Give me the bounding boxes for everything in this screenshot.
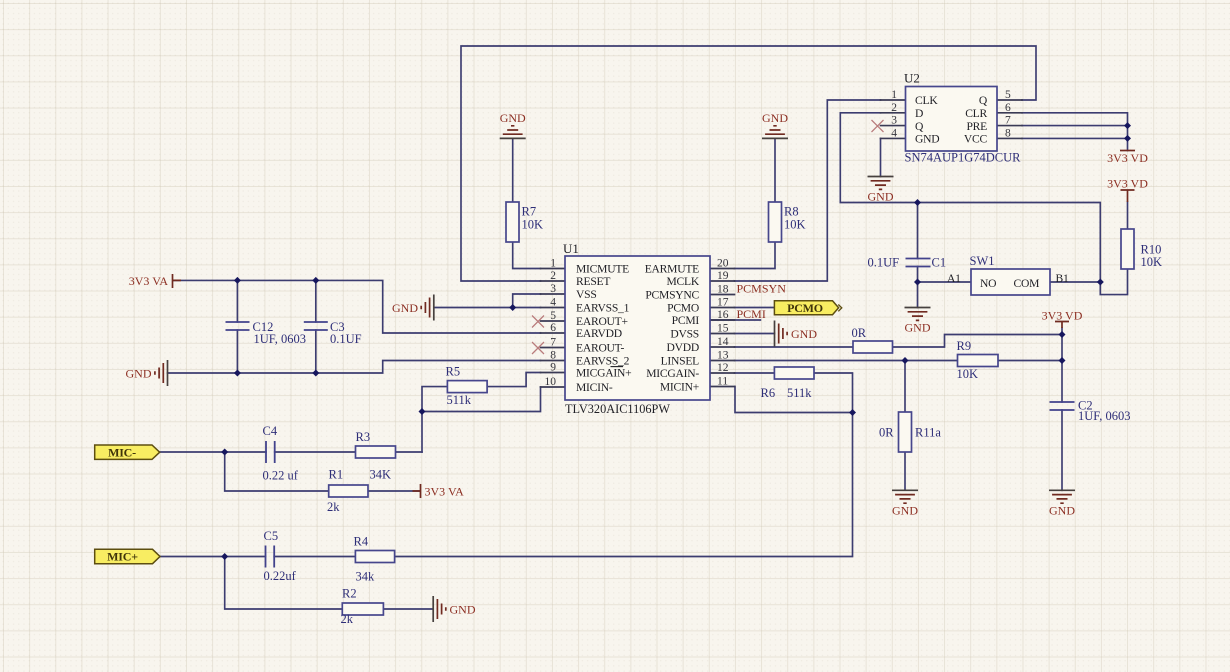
capacitor C12 1UF,0603 [226, 320, 306, 346]
svg-text:34k: 34k [356, 570, 376, 584]
wire U2 pin4 to ground [880, 138, 882, 176]
wire MICGAIN+ pin9 to R5 [487, 373, 540, 387]
resistor R4 34k [354, 535, 395, 584]
svg-text:R5: R5 [446, 365, 461, 379]
capacitor C2 1UF,0603 [1050, 399, 1131, 424]
wire R1 to 3V3VA [368, 490, 420, 492]
wire DVDD pin14 to 0R [735, 346, 854, 348]
svg-text:1UF, 0603: 1UF, 0603 [1078, 409, 1130, 423]
wire C1 bottom stem [917, 267, 919, 308]
svg-text:GND: GND [500, 111, 526, 125]
svg-text:17: 17 [717, 297, 729, 309]
ground above R7 [500, 111, 526, 139]
wire R4 to R6 net and MICIN+ [395, 373, 853, 557]
switch SW1 [947, 254, 1069, 295]
wire GND to EARVSS_1 pin4 [434, 307, 541, 309]
svg-text:10K: 10K [1141, 255, 1163, 269]
resistor R1 2k [327, 468, 368, 515]
wire R11a top stem [904, 361, 906, 413]
wire PCMO pin17 to port [735, 307, 775, 309]
no-connect X U1 pin5 [532, 316, 544, 328]
wire GND to R7 [512, 140, 514, 203]
wire R3 right [396, 451, 423, 453]
svg-text:B1: B1 [1056, 272, 1069, 285]
wire U2 pin7 PRE [1022, 125, 1128, 127]
svg-text:DVDD: DVDD [667, 341, 700, 354]
svg-text:GND: GND [915, 133, 939, 146]
wire LINSEL pin13 to R9 [735, 360, 958, 362]
svg-text:6: 6 [550, 322, 556, 334]
svg-text:VSS: VSS [576, 288, 597, 301]
svg-text:MICMUTE: MICMUTE [576, 263, 629, 276]
svg-text:3V3 VD: 3V3 VD [1107, 176, 1148, 190]
port MIC- [95, 445, 160, 459]
svg-text:3V3 VD: 3V3 VD [1042, 308, 1083, 322]
svg-text:3V3 VA: 3V3 VA [129, 274, 169, 288]
svg-text:0R: 0R [852, 326, 867, 340]
svg-text:GND: GND [126, 366, 152, 380]
svg-text:GND: GND [791, 327, 817, 341]
svg-text:14: 14 [717, 336, 729, 348]
svg-text:PRE: PRE [966, 120, 987, 133]
svg-text:MICIN+: MICIN+ [660, 381, 699, 394]
svg-text:7: 7 [550, 337, 556, 349]
wire branch to VSS pin3 [513, 294, 541, 308]
svg-text:Q: Q [979, 94, 988, 107]
wire C5 to R4 [274, 556, 355, 558]
capacitor C3 0.1UF [304, 320, 362, 346]
svg-text:GND: GND [868, 190, 894, 204]
wire C12 bottom stem [236, 330, 238, 373]
wire RESET to U2 Q loop [461, 46, 1036, 281]
resistor R5 511k [446, 365, 488, 408]
svg-text:MICGAIN+: MICGAIN+ [576, 367, 631, 380]
no-connect X U1 pin7 [532, 342, 544, 354]
svg-text:NO: NO [980, 277, 996, 290]
svg-text:PCMI: PCMI [672, 314, 700, 327]
svg-text:1: 1 [550, 258, 556, 270]
resistor R11a 0R [879, 412, 941, 452]
svg-text:15: 15 [717, 323, 729, 335]
svg-text:R8: R8 [784, 205, 799, 219]
svg-text:C4: C4 [263, 424, 278, 438]
svg-text:R2: R2 [342, 587, 357, 601]
svg-text:EAROUT-: EAROUT- [576, 342, 624, 355]
wire C12 top stem [236, 280, 238, 322]
svg-text:0.1UF: 0.1UF [868, 256, 900, 270]
wire R5 left to R3 node [422, 387, 447, 452]
svg-text:8: 8 [1005, 127, 1011, 139]
capacitor C1 0.1UF [868, 256, 947, 270]
svg-text:4: 4 [891, 127, 897, 139]
ground R2 [433, 596, 476, 622]
svg-text:10: 10 [545, 376, 557, 388]
svg-text:GND: GND [905, 321, 931, 335]
svg-text:A1: A1 [947, 272, 961, 285]
svg-text:0.22 uf: 0.22 uf [263, 469, 299, 483]
svg-text:6: 6 [1005, 102, 1011, 114]
capacitor C5 0.22uf [264, 529, 297, 583]
svg-text:12: 12 [717, 362, 729, 374]
svg-text:2: 2 [891, 102, 897, 114]
wire U2 pin6 CLR to 3V3VD rail [1022, 113, 1128, 151]
U1 pin stubs right 20-11 [710, 269, 735, 387]
wire MICIN- pin10 [422, 387, 541, 412]
svg-text:GND: GND [1049, 504, 1075, 518]
wire R7 to U1 pin1 [513, 242, 541, 269]
svg-text:Q: Q [915, 120, 924, 133]
port MIC+ [95, 549, 160, 563]
svg-text:MIC+: MIC+ [107, 550, 138, 564]
svg-text:CLR: CLR [965, 107, 987, 120]
wire PCMI pin16 [710, 319, 760, 321]
wire MIC+ branch to R2 [225, 557, 343, 610]
svg-text:C5: C5 [264, 529, 279, 543]
svg-text:LINSEL: LINSEL [661, 355, 700, 368]
svg-text:3V3 VD: 3V3 VD [1107, 151, 1148, 165]
svg-text:5: 5 [1005, 89, 1011, 101]
svg-text:511k: 511k [787, 386, 812, 400]
wire 0R to 3V3VD node [893, 335, 1063, 348]
ground R11a [892, 490, 918, 517]
U1 pin stubs left 1-10 [541, 269, 566, 388]
capacitor C4 0.22uf [263, 424, 299, 483]
svg-text:PCMSYN: PCMSYN [737, 282, 787, 296]
svg-text:DVSS: DVSS [670, 328, 699, 341]
power port 3V3 VD (U2 VCC) [1107, 151, 1148, 166]
resistor R6 511k [761, 367, 815, 400]
svg-text:R6: R6 [761, 386, 776, 400]
svg-text:3: 3 [891, 115, 897, 127]
power port 3V3 VD (R10) [1107, 176, 1148, 202]
ground C2 [1049, 490, 1075, 517]
ground above R8 [762, 111, 788, 139]
wire SW1 A1 [918, 281, 972, 283]
U2 pin numbers [891, 89, 1011, 139]
svg-text:D: D [915, 107, 923, 120]
svg-text:2: 2 [550, 270, 556, 282]
svg-text:PCMO: PCMO [787, 301, 823, 315]
U1 pin numbers [545, 258, 729, 389]
wire MIC+ to C5 [160, 556, 266, 558]
resistor R10 10K [1121, 229, 1162, 269]
wire SW1 B1 [1050, 281, 1100, 283]
svg-text:EARVSS_1: EARVSS_1 [576, 302, 630, 315]
svg-text:SN74AUP1G74DCUR: SN74AUP1G74DCUR [905, 151, 1022, 165]
svg-text:MCLK: MCLK [667, 275, 700, 288]
svg-text:PCMI: PCMI [737, 307, 766, 321]
svg-text:R3: R3 [356, 430, 371, 444]
svg-text:GND: GND [450, 602, 476, 616]
wire 3V3VD stem to C2 [1061, 328, 1063, 402]
svg-text:RESET: RESET [576, 275, 610, 288]
svg-text:2k: 2k [341, 612, 354, 626]
IC U2 SN74AUP1G74DCUR [904, 71, 1021, 165]
wire MCLK U1 pin19 to U2 pin1 [735, 100, 881, 281]
svg-text:2k: 2k [327, 500, 340, 514]
svg-text:0.22uf: 0.22uf [264, 569, 297, 583]
svg-text:R4: R4 [354, 535, 369, 549]
svg-text:18: 18 [717, 284, 729, 296]
svg-text:C1: C1 [932, 256, 947, 270]
resistor R2 2k [341, 587, 384, 627]
svg-text:R11a: R11a [915, 426, 941, 440]
svg-text:VCC: VCC [964, 133, 988, 146]
wire MIC- to C4 [159, 451, 266, 453]
svg-text:13: 13 [717, 350, 729, 362]
svg-text:GND: GND [392, 301, 418, 315]
IC U1 TLV320AIC1106PW [563, 241, 710, 416]
port PCMO [774, 301, 841, 315]
ground U2 pin4 [868, 177, 894, 204]
wire R8 to U1 pin20 [735, 242, 776, 269]
svg-text:GND: GND [762, 111, 788, 125]
wire R9 to 3V3VD node [998, 360, 1062, 362]
wire GND rail to EARVSS_2 pin8 [168, 361, 541, 374]
svg-text:EARVDD: EARVDD [576, 327, 622, 340]
svg-text:0.1UF: 0.1UF [330, 332, 362, 346]
svg-text:16: 16 [717, 309, 729, 321]
power port 3V3 VD (R9/C2) [1042, 308, 1083, 328]
svg-text:8: 8 [550, 350, 556, 362]
svg-text:1UF, 0603: 1UF, 0603 [254, 332, 306, 346]
ground VSS (left of U1) [392, 295, 434, 321]
svg-text:U1: U1 [563, 241, 579, 256]
wire R11a bottom stem [904, 452, 906, 490]
wire MICIN+ pin11 [735, 387, 853, 413]
svg-text:COM: COM [1014, 277, 1040, 290]
power port 3V3 VA (left) [129, 274, 181, 288]
svg-text:20: 20 [717, 258, 729, 270]
U2 pin stubs left 1-4 [881, 100, 906, 138]
wire GND to R8 [774, 140, 776, 203]
wire C2 bottom stem [1061, 410, 1063, 490]
ground DVSS pin15 [775, 321, 818, 347]
svg-text:7: 7 [1005, 115, 1011, 127]
wire C4 to R3 [275, 451, 356, 453]
wire 3V3VD to R10 top [1127, 202, 1129, 229]
wire C3 top stem [315, 280, 317, 322]
ground C1 [905, 308, 931, 335]
svg-text:SW1: SW1 [970, 254, 995, 268]
svg-text:1: 1 [891, 89, 897, 101]
svg-text:GND: GND [892, 504, 918, 518]
svg-text:0R: 0R [879, 426, 894, 440]
svg-text:10K: 10K [784, 218, 806, 232]
wire U2 pin8 VCC [1022, 137, 1128, 139]
svg-text:4: 4 [550, 297, 556, 309]
resistor 0R (DVDD) [852, 326, 893, 353]
svg-text:PCMO: PCMO [667, 302, 699, 315]
svg-text:10K: 10K [522, 218, 544, 232]
svg-text:9: 9 [550, 362, 556, 374]
svg-text:R7: R7 [522, 205, 537, 219]
resistor R8 10K [769, 202, 806, 242]
wire U2 pin2 D to SW1 B1 and R10 [840, 113, 1127, 295]
svg-text:5: 5 [550, 310, 556, 322]
wire MICGAIN- pin12 to R6 [735, 372, 775, 374]
svg-text:11: 11 [717, 376, 728, 388]
svg-text:MICIN-: MICIN- [576, 381, 613, 394]
svg-text:R1: R1 [329, 468, 344, 482]
wire DVSS pin15 to GND [735, 333, 775, 335]
svg-text:PCMSYNC: PCMSYNC [645, 289, 699, 302]
U2 pin stubs right 5-8 [997, 100, 1022, 138]
resistor R9 10K [957, 339, 999, 381]
svg-text:34K: 34K [370, 468, 392, 482]
wire R2 to GND [383, 608, 433, 610]
no-connect X U2 pin3 [872, 120, 884, 132]
svg-text:EARMUTE: EARMUTE [645, 263, 699, 276]
resistor R7 10K [506, 202, 543, 242]
resistor R3 34K [356, 430, 396, 482]
svg-text:511k: 511k [447, 393, 472, 407]
svg-text:3: 3 [550, 283, 556, 295]
wire C3 bottom stem [315, 330, 317, 373]
wire 3V3VA rail to EARVDD pin6 [173, 280, 541, 333]
ground C12 rail [126, 360, 168, 386]
svg-text:U2: U2 [904, 71, 920, 86]
svg-text:CLK: CLK [915, 94, 938, 107]
svg-text:10K: 10K [957, 367, 979, 381]
wire C1 top stem [917, 203, 919, 259]
svg-text:MICGAIN-: MICGAIN- [646, 367, 699, 380]
svg-text:MIC-: MIC- [108, 445, 136, 459]
svg-text:19: 19 [717, 270, 729, 282]
svg-text:3V3 VA: 3V3 VA [425, 484, 465, 498]
svg-text:TLV320AIC1106PW: TLV320AIC1106PW [565, 402, 670, 416]
svg-text:R9: R9 [957, 339, 972, 353]
wire MIC- branch to R1 [225, 452, 329, 491]
power port 3V3 VA (R1) [413, 484, 465, 498]
